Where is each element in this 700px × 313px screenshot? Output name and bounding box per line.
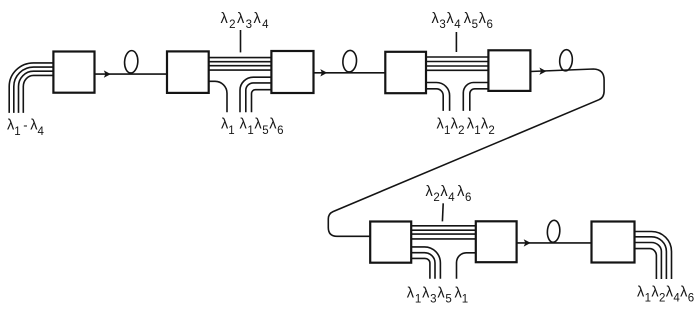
svg-text:λ2λ3λ4: λ2λ3λ4 bbox=[221, 11, 271, 31]
box B6 (ADM 3 left) bbox=[370, 222, 411, 263]
wire input 2 bbox=[14, 67, 54, 113]
input fiber fan lines λ1-λ4 into box B1 bbox=[9, 63, 53, 113]
drop wire ADM3 a (λ1) bbox=[411, 247, 440, 279]
svg-text:λ1λ2λ1λ2: λ1λ2λ1λ2 bbox=[437, 117, 495, 137]
svg-text:λ1λ3λ5: λ1λ3λ5 bbox=[407, 285, 453, 305]
pointer line ADM1 bbox=[240, 30, 242, 52]
wire input 3 bbox=[19, 71, 54, 113]
arrow A3 bbox=[539, 68, 546, 75]
output fiber fan lines from B8 bbox=[635, 232, 672, 280]
box B1 (multiplexer) bbox=[53, 52, 94, 93]
wire output 1 bbox=[635, 232, 672, 280]
wire B3 to B4 bbox=[314, 72, 386, 74]
box B2 (ADM 1 left) bbox=[167, 51, 209, 93]
svg-text:λ3λ4λ5λ6: λ3λ4λ5λ6 bbox=[432, 11, 494, 31]
add wire ADM3 (λ1) bbox=[457, 253, 476, 279]
wire input 4 bbox=[23, 75, 53, 113]
through lines ADM3 bbox=[411, 226, 476, 239]
box B8 (demultiplexer) bbox=[592, 222, 635, 263]
wire through 4 bbox=[209, 69, 272, 71]
svg-text:λ1: λ1 bbox=[455, 285, 469, 305]
wire through 1 bbox=[411, 225, 476, 227]
pointer line ADM3 bbox=[441, 203, 444, 221]
wire B1 to B2 bbox=[95, 73, 168, 75]
wire output 3 bbox=[635, 243, 662, 280]
wire output 2 bbox=[635, 237, 667, 279]
through lines ADM1 bbox=[209, 58, 272, 71]
box B7 (ADM 3 right) bbox=[476, 221, 517, 262]
box B3 (ADM 1 right) bbox=[271, 51, 313, 93]
box B4 (ADM 2 left) bbox=[385, 52, 426, 93]
arrow A2 bbox=[320, 69, 327, 76]
drop wire ADM3 c (λ5) bbox=[411, 258, 430, 278]
svg-text:λ1 - λ4: λ1 - λ4 bbox=[7, 118, 44, 138]
wire through 2 bbox=[426, 61, 488, 63]
fiber coil L2 bbox=[342, 50, 357, 72]
drop wire ADM2 b (λ2) bbox=[426, 89, 443, 111]
fiber coil L3 bbox=[559, 49, 573, 71]
box B5 (ADM 2 right) bbox=[488, 50, 530, 91]
add wire ADM1 c (λ6) bbox=[252, 90, 272, 113]
fiber coil L4 bbox=[547, 220, 561, 243]
wire through 3 bbox=[411, 233, 476, 235]
add wire ADM2 b (λ2) bbox=[470, 89, 489, 111]
arrow A4 bbox=[524, 239, 531, 246]
wire through 3 bbox=[209, 65, 272, 67]
wire input 1 bbox=[9, 63, 53, 113]
drop wire ADM1 (λ1) bbox=[209, 81, 227, 112]
arrow A1 bbox=[104, 70, 111, 77]
svg-text:λ1: λ1 bbox=[221, 117, 235, 137]
add wire ADM2 a (λ1) bbox=[463, 83, 488, 111]
wire B7 to B8 bbox=[517, 242, 592, 244]
through lines ADM2 bbox=[426, 57, 488, 70]
wire through 3 bbox=[426, 65, 488, 67]
drop wire ADM3 b (λ3) bbox=[411, 253, 435, 279]
wire through 4 bbox=[426, 69, 488, 71]
pointer line ADM2 bbox=[455, 32, 457, 52]
wire output 4 bbox=[635, 249, 657, 279]
wire B5 to corner, diagonal return, into B6 bbox=[328, 69, 604, 236]
svg-text:λ1λ2λ4λ6: λ1λ2λ4λ6 bbox=[637, 285, 695, 305]
svg-text:λ2λ4λ6: λ2λ4λ6 bbox=[426, 184, 472, 204]
wire through 4 bbox=[411, 238, 476, 240]
drop wire ADM2 a (λ1) bbox=[426, 83, 450, 111]
add wire ADM1 b (λ5) bbox=[246, 83, 272, 112]
svg-text:λ1λ5λ6: λ1λ5λ6 bbox=[240, 117, 285, 137]
wire through 2 bbox=[209, 61, 272, 63]
add wire ADM1 a (λ1) bbox=[240, 77, 271, 112]
wire through 2 bbox=[411, 229, 476, 231]
fiber coil L1 bbox=[124, 50, 139, 73]
wire through 1 bbox=[426, 56, 488, 58]
wire through 1 bbox=[209, 57, 272, 59]
